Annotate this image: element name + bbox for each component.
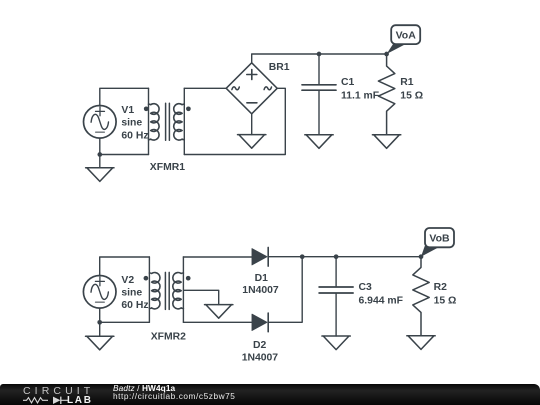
wire V2 bottom to XFMR2 primary: [100, 308, 150, 322]
transformer XFMR2: [144, 257, 191, 322]
ground under R1: [372, 135, 400, 149]
svg-text:VoA: VoA: [396, 30, 417, 42]
wire C1 bottom stub: [318, 91, 320, 135]
svg-text:60 Hz: 60 Hz: [121, 131, 148, 142]
wire XFMR1 secondary bottom to bridge right: [184, 88, 285, 154]
V2 value labels: [121, 275, 148, 311]
wire V2 top to XFMR2 primary: [100, 257, 150, 276]
svg-text:VoB: VoB: [429, 233, 450, 245]
svg-text:V1: V1: [121, 105, 134, 116]
R2 value labels: [434, 282, 457, 307]
junction dot diode node: [300, 254, 305, 259]
wire C3 bottom stub: [335, 294, 337, 336]
C1 value labels: [341, 77, 379, 102]
svg-text:D1: D1: [255, 273, 269, 284]
wire D1 cathode to node: [268, 256, 302, 258]
svg-text:15 Ω: 15 Ω: [434, 295, 457, 306]
junction dot R2 top: [419, 254, 424, 259]
wire to ground under V1: [99, 155, 101, 168]
D2 labels: [242, 340, 279, 364]
V1 value labels: [121, 105, 148, 141]
CircuitLab logo: [23, 386, 103, 396]
wire to ground under V2: [99, 322, 101, 336]
svg-text:C3: C3: [359, 282, 373, 293]
svg-text:sine: sine: [121, 288, 142, 299]
net flag VoB: [421, 228, 454, 257]
footer bar: [0, 384, 540, 405]
svg-text:XFMR2: XFMR2: [151, 331, 186, 342]
diode D1: [252, 247, 268, 266]
ground at XFMR2 center tap: [205, 305, 233, 319]
svg-text:1N4007: 1N4007: [242, 353, 279, 364]
junction dot V1 bottom: [97, 152, 102, 157]
net flag VoA: [387, 25, 421, 54]
wire V1 bottom to XFMR1 primary: [100, 138, 149, 154]
junction dot R1 top: [384, 52, 389, 57]
ground under V2: [86, 336, 114, 350]
wire XFMR2 secondary top to D1: [183, 256, 252, 258]
ground under V1: [86, 168, 114, 182]
transformer XFMR1: [144, 88, 191, 154]
wire center tap to ground: [183, 290, 218, 304]
svg-text:R2: R2: [434, 282, 448, 293]
junction dot C3 top: [334, 254, 339, 259]
svg-text:D2: D2: [253, 340, 267, 351]
wire D2 cathode up to node: [268, 257, 302, 323]
ground under C1: [305, 135, 333, 149]
C3 value labels: [359, 282, 403, 307]
D1 labels: [242, 273, 279, 296]
voltage source V2: [83, 276, 116, 309]
svg-text:11.1 mF: 11.1 mF: [341, 90, 379, 101]
wire XFMR1 secondary top to bridge: [184, 87, 226, 89]
R1 value labels: [400, 77, 423, 102]
svg-text:XFMR1: XFMR1: [150, 162, 185, 173]
ground under C3: [322, 336, 350, 350]
wire XFMR2 secondary bottom to D2: [183, 321, 252, 323]
bridge rectifier BR1: [226, 63, 277, 114]
resistor R1: [378, 54, 394, 135]
capacitor C3: [319, 287, 353, 293]
ground under BR1: [238, 135, 266, 149]
svg-text:6.944 mF: 6.944 mF: [359, 295, 403, 306]
wire bridge top to rail: [252, 54, 387, 63]
voltage source V1: [84, 106, 117, 139]
svg-text:C1: C1: [341, 77, 355, 88]
wire C3 top stub: [335, 257, 337, 287]
diode D2: [252, 313, 268, 332]
resistor R2: [413, 257, 429, 336]
svg-text:60 Hz: 60 Hz: [121, 300, 148, 311]
footer credit text: [113, 384, 175, 392]
ground under R2: [407, 336, 435, 350]
wire bridge bottom to ground: [251, 114, 253, 135]
svg-text:1N4007: 1N4007: [242, 285, 279, 296]
junction dot V2 bottom: [97, 320, 102, 325]
wire V1 top to XFMR1 primary: [100, 88, 149, 105]
svg-text:V2: V2: [121, 275, 134, 286]
svg-text:R1: R1: [400, 77, 414, 88]
svg-text:sine: sine: [121, 118, 142, 129]
capacitor C1: [302, 85, 336, 90]
svg-text:BR1: BR1: [269, 62, 290, 73]
wire C1 top stub: [318, 54, 320, 84]
wire main rail to R2: [302, 256, 421, 258]
junction dot C1 top: [317, 52, 322, 57]
svg-text:15 Ω: 15 Ω: [400, 90, 423, 101]
